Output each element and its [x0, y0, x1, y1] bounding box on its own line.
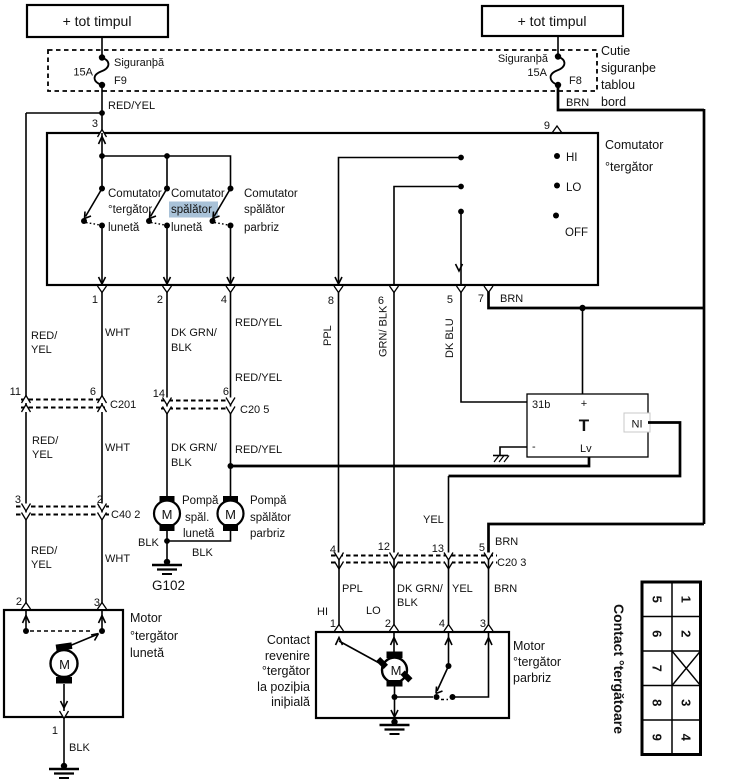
- svg-text:6: 6: [90, 386, 96, 398]
- svg-text:spălător: spălător: [171, 204, 212, 216]
- svg-text:3: 3: [480, 618, 486, 630]
- svg-text:Contact °tergătoare: Contact °tergătoare: [611, 604, 627, 734]
- relay minus wire to chassis ground: [500, 447, 527, 455]
- junction to left rail: [99, 110, 105, 116]
- DK GRN/BLK wire pin2 to pump1: [166, 292, 168, 497]
- svg-text:BLK: BLK: [192, 547, 213, 559]
- svg-text:spăl.: spăl.: [185, 512, 209, 524]
- svg-text:6: 6: [650, 630, 665, 637]
- svg-text:Comutator: Comutator: [244, 188, 298, 200]
- OFF contact wire to pin 5: [460, 212, 462, 286]
- HI LO OFF bullets and labels: [553, 152, 588, 239]
- REAR WIPER MOTOR BOX: [4, 610, 123, 717]
- X cell: [672, 651, 701, 686]
- svg-text:-: -: [532, 441, 536, 453]
- svg-text:LO: LO: [566, 182, 581, 194]
- junction dot BRN to relay +: [579, 305, 585, 311]
- svg-text:WHT: WHT: [105, 327, 130, 339]
- svg-text:YEL: YEL: [32, 449, 53, 461]
- svg-text:G102: G102: [152, 578, 185, 593]
- svg-text:BLK: BLK: [69, 742, 90, 754]
- svg-text:5: 5: [650, 596, 665, 603]
- svg-text:M: M: [225, 507, 236, 522]
- power box B+ left: [27, 5, 168, 37]
- svg-text:9: 9: [544, 120, 550, 132]
- svg-text:Pompă: Pompă: [182, 495, 219, 507]
- svg-text:Siguranþă: Siguranþă: [498, 53, 549, 65]
- washer feed wire to relay Lv: [231, 457, 590, 466]
- svg-text:BRN: BRN: [500, 293, 523, 305]
- svg-text:4: 4: [439, 618, 445, 630]
- svg-text:C40 2: C40 2: [111, 509, 140, 521]
- motor to ground node: [394, 686, 396, 697]
- svg-text:7: 7: [478, 293, 484, 305]
- svg-text:1: 1: [52, 725, 58, 737]
- RED/YEL wire pin4 to pump2: [230, 292, 232, 497]
- wires from switches to pins 1,2,4: [101, 226, 103, 286]
- svg-text:OFF: OFF: [565, 227, 588, 239]
- svg-text:3: 3: [15, 494, 21, 506]
- svg-text:spălător: spălător: [250, 512, 291, 524]
- pin 3 entry chevron: [98, 130, 107, 138]
- chassis ground symbol: [493, 456, 509, 463]
- junction on RED/YEL to washer line: [228, 463, 234, 469]
- svg-text:2: 2: [97, 494, 103, 506]
- svg-text:1: 1: [330, 618, 336, 630]
- windshield motor symbol: [376, 652, 413, 687]
- svg-text:+ tot timpul: + tot timpul: [518, 13, 587, 29]
- motor arm diagonal: [62, 635, 97, 650]
- HI contact wire to pin 8: [339, 158, 462, 286]
- svg-text:lunetă: lunetă: [108, 222, 140, 234]
- right rail BRN wire: [703, 109, 706, 524]
- fuse box label: Cutie sigurante tablou bord: [601, 44, 656, 109]
- ground G102: [152, 559, 185, 593]
- svg-text:DK GRN/: DK GRN/: [397, 583, 444, 595]
- svg-text:la poziþia: la poziþia: [257, 680, 310, 694]
- fuse F8: [498, 53, 582, 88]
- pin 3 entry arrow: [99, 137, 106, 145]
- svg-text:BRN: BRN: [566, 97, 589, 109]
- entry wires to contacts: [25, 610, 27, 631]
- svg-text:7: 7: [650, 665, 665, 672]
- connector C203: [330, 541, 526, 569]
- svg-text:DK GRN/: DK GRN/: [171, 442, 218, 454]
- wire from B+ left to fuse F9: [101, 37, 103, 57]
- svg-text:BRN: BRN: [495, 536, 518, 548]
- rear motor symbol: [51, 642, 78, 683]
- rear motor ground wire: [63, 684, 65, 717]
- svg-text:YEL: YEL: [31, 559, 52, 571]
- LO contact wire to pin 6: [394, 187, 461, 286]
- switch feed rail: [102, 156, 231, 189]
- pin 7 BRN wire to right rail: [489, 292, 705, 308]
- svg-text:parbriz: parbriz: [513, 671, 551, 685]
- svg-text:3: 3: [92, 118, 98, 130]
- svg-text:2: 2: [157, 294, 163, 306]
- wire BRN junction down to relay +: [582, 308, 584, 394]
- svg-text:13: 13: [432, 543, 444, 555]
- svg-text:RED/YEL: RED/YEL: [235, 317, 282, 329]
- svg-text:RED/YEL: RED/YEL: [108, 100, 155, 112]
- ground wire of windshield motor: [394, 697, 396, 718]
- svg-text:RED/YEL: RED/YEL: [235, 444, 282, 456]
- svg-text:BLK: BLK: [397, 597, 418, 609]
- svg-text:°tergător: °tergător: [108, 204, 152, 216]
- svg-text:YEL: YEL: [31, 344, 52, 356]
- svg-text:1: 1: [679, 596, 694, 603]
- svg-text:HI: HI: [317, 606, 328, 618]
- park switch contacts: [395, 696, 434, 698]
- park switch: pin4 wire and arm: [448, 632, 450, 666]
- svg-text:Pompă: Pompă: [250, 495, 287, 507]
- svg-text:DK BLU: DK BLU: [444, 318, 456, 358]
- connector C40: [15, 494, 140, 521]
- svg-text:GRN/ BLK: GRN/ BLK: [378, 305, 390, 357]
- GRN/BLK wire pin6 to C203: [393, 292, 395, 556]
- svg-text:M: M: [162, 507, 173, 522]
- svg-text:15A: 15A: [73, 67, 93, 79]
- entry chevrons rear motor: [22, 603, 31, 610]
- svg-text:Motor: Motor: [130, 611, 162, 625]
- svg-text:F9: F9: [114, 75, 127, 87]
- wiper switch assembly box: [47, 133, 598, 285]
- svg-text:parbriz: parbriz: [244, 222, 279, 234]
- relay NI wire to YEL: [449, 423, 681, 477]
- svg-text:4: 4: [679, 734, 694, 742]
- svg-text:lunetă: lunetă: [183, 528, 215, 540]
- svg-text:Comutator: Comutator: [605, 138, 663, 152]
- svg-text:12: 12: [378, 541, 390, 553]
- svg-text:M: M: [59, 657, 70, 672]
- svg-text:tablou: tablou: [601, 78, 635, 92]
- svg-text:°tergător: °tergător: [513, 655, 561, 669]
- svg-text:C20 3: C20 3: [497, 557, 526, 569]
- connector C201: [10, 386, 137, 412]
- svg-text:lunetă: lunetă: [171, 222, 203, 234]
- wire to left rail: [26, 112, 102, 114]
- fuse box dashed outline: [48, 50, 597, 91]
- svg-text:YEL: YEL: [452, 583, 473, 595]
- svg-text:iniþială: iniþială: [271, 695, 310, 709]
- svg-text:M: M: [391, 663, 402, 678]
- wire F9 down, RED/YEL: [101, 85, 103, 133]
- svg-text:Contact: Contact: [267, 633, 311, 647]
- svg-text:siguranþe: siguranþe: [601, 61, 656, 75]
- svg-text:revenire: revenire: [265, 649, 310, 663]
- pin 9 hollow triangle: [552, 126, 562, 133]
- svg-text:°tergător: °tergător: [262, 664, 310, 678]
- switch S1: Comutator stergator luneta: [81, 186, 162, 235]
- junction dots on feed rail: [99, 153, 105, 159]
- svg-text:1: 1: [92, 294, 98, 306]
- svg-text:6: 6: [378, 295, 384, 307]
- connector C205: [153, 386, 270, 416]
- svg-text:NI: NI: [632, 419, 643, 431]
- YEL wire down to C203: [448, 476, 450, 556]
- svg-text:lunetă: lunetă: [130, 646, 164, 660]
- svg-text:3: 3: [679, 699, 694, 706]
- svg-text:Cutie: Cutie: [601, 44, 630, 58]
- svg-text:Siguranþă: Siguranþă: [114, 57, 165, 69]
- svg-text:spălător: spălător: [244, 204, 285, 216]
- svg-text:YEL: YEL: [423, 514, 444, 526]
- svg-text:T: T: [579, 416, 590, 435]
- pin2 wire to motor: [393, 632, 395, 652]
- switch S2: Comutator spalator luneta: [146, 186, 225, 235]
- BLK wires from pumps to ground G102: [166, 531, 168, 562]
- svg-text:RED/: RED/: [31, 545, 58, 557]
- svg-text:2: 2: [16, 596, 22, 608]
- svg-text:4: 4: [221, 294, 227, 306]
- svg-text:bord: bord: [601, 95, 626, 109]
- svg-text:Lv: Lv: [580, 443, 592, 455]
- svg-text:Motor: Motor: [513, 639, 545, 653]
- DK BLU wire pin5 to relay 31b: [461, 292, 527, 402]
- svg-text:4: 4: [330, 544, 336, 556]
- entry chevrons windshield motor: [335, 625, 344, 632]
- relay timer box: [527, 394, 650, 457]
- entry arrows inside: [23, 616, 30, 624]
- CONTACT TABLE bottom right: [642, 582, 701, 755]
- pin chevrons bottom of switch box: [98, 286, 107, 293]
- svg-text:Comutator: Comutator: [108, 188, 162, 200]
- svg-text:F8: F8: [569, 75, 582, 87]
- power box B+ right: [482, 6, 623, 36]
- svg-text:WHT: WHT: [105, 553, 130, 565]
- pin1 wire diagonal to motor brush: [339, 641, 381, 664]
- WINDSHIELD WIPER MOTOR BOX: [316, 632, 509, 718]
- svg-text:parbriz: parbriz: [250, 528, 285, 540]
- svg-text:°tergător: °tergător: [130, 629, 178, 643]
- washer pump 1: Pompa spal. luneta: [154, 495, 219, 540]
- svg-text:11: 11: [10, 386, 21, 398]
- park contact label left: [257, 633, 310, 709]
- svg-text:LO: LO: [366, 605, 381, 617]
- svg-text:PPL: PPL: [342, 583, 363, 595]
- svg-text:8: 8: [328, 295, 334, 307]
- svg-text:C201: C201: [110, 399, 136, 411]
- svg-text:5: 5: [447, 294, 453, 306]
- svg-text:6: 6: [223, 386, 229, 398]
- feed wire inside box to switch rail: [101, 133, 103, 156]
- PPL wire pin8 to C203: [338, 292, 340, 556]
- ground symbol windshield motor: [380, 719, 410, 734]
- svg-text:°tergător: °tergător: [605, 160, 653, 174]
- svg-text:8: 8: [650, 699, 665, 706]
- down arrows at pins 1,2,4: [99, 277, 106, 284]
- svg-text:14: 14: [153, 388, 165, 400]
- ground symbol rear motor: [49, 763, 79, 778]
- svg-text:+ tot timpul: + tot timpul: [63, 13, 132, 29]
- svg-text:Comutator: Comutator: [171, 188, 225, 200]
- svg-text:DK GRN/: DK GRN/: [171, 327, 218, 339]
- svg-text:15A: 15A: [527, 67, 547, 79]
- svg-text:BLK: BLK: [138, 537, 159, 549]
- svg-text:9: 9: [650, 734, 665, 741]
- wire from B+ right to fuse F8: [557, 36, 559, 56]
- svg-text:PPL: PPL: [322, 325, 334, 346]
- svg-text:RED/: RED/: [31, 330, 58, 342]
- washer pump 2: Pompa spalator parbriz: [218, 495, 292, 540]
- entry arrows inside: [336, 638, 343, 646]
- svg-text:RED/YEL: RED/YEL: [235, 372, 282, 384]
- svg-text:BRN: BRN: [494, 583, 517, 595]
- svg-text:+: +: [581, 398, 587, 410]
- svg-text:2: 2: [679, 630, 694, 637]
- BRN wire from right rail to C203 pin5: [489, 524, 705, 556]
- svg-text:WHT: WHT: [105, 442, 130, 454]
- wires C203 to windshield motor: [338, 560, 340, 632]
- dashed position line with arrow: [30, 630, 90, 632]
- wire F8 down BRN then right to right rail: [558, 85, 704, 110]
- switch S3: Comutator spalator parbriz: [210, 186, 298, 235]
- svg-text:31b: 31b: [532, 399, 550, 411]
- svg-text:C20 5: C20 5: [240, 404, 269, 416]
- WHT wire pin1 to rear motor: [101, 292, 103, 610]
- svg-text:HI: HI: [566, 152, 578, 164]
- fuse F9: [73, 54, 165, 88]
- svg-text:RED/: RED/: [32, 435, 59, 447]
- svg-text:BLK: BLK: [171, 342, 192, 354]
- svg-text:5: 5: [479, 542, 485, 554]
- svg-text:BLK: BLK: [171, 457, 192, 469]
- left rail RED/YEL wire: [25, 113, 27, 610]
- svg-text:2: 2: [385, 618, 391, 630]
